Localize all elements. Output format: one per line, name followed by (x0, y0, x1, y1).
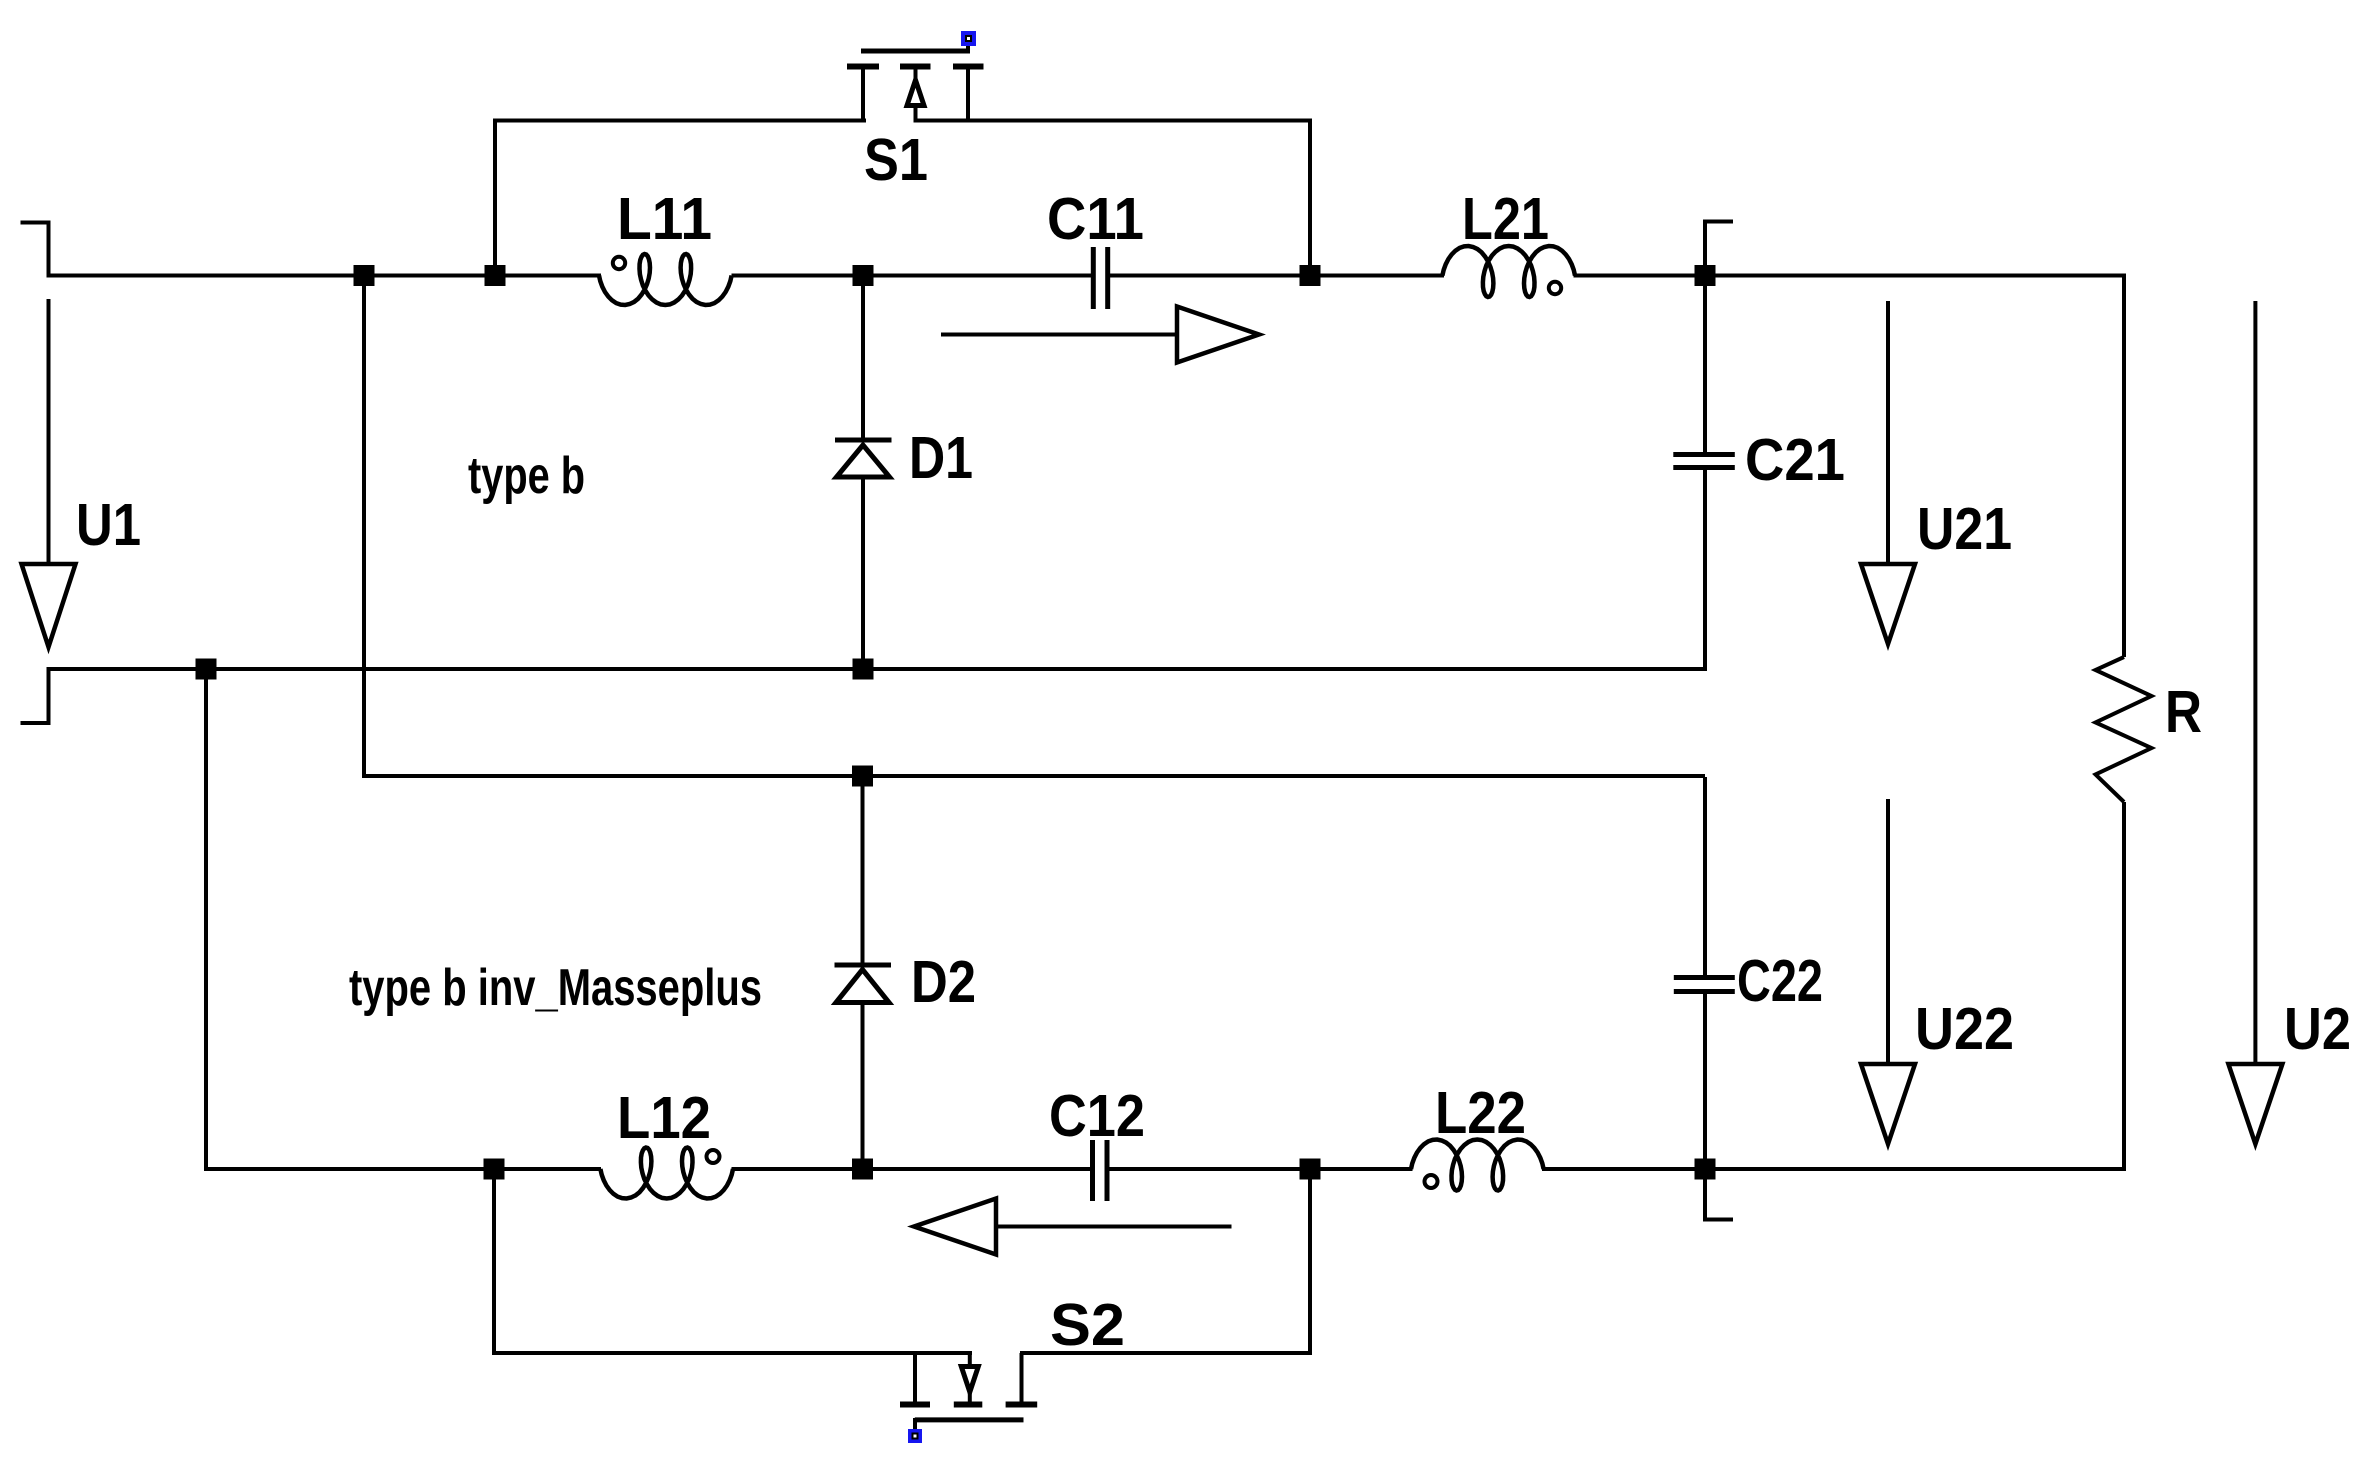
wire: top rail (left of L11) (47, 274, 602, 278)
inductor L12 (600, 1148, 733, 1199)
svg-text:U22: U22 (1915, 996, 2014, 1062)
wire: S1 loop top line right segment (914, 119, 1313, 123)
wire: S2 loop bottom line left segment (492, 1351, 972, 1355)
svg-text:type b inv_Masseplus: type b inv_Masseplus (349, 959, 762, 1017)
node: junction S2 left riser (484, 1159, 505, 1180)
current direction arrow (bottom cell) (914, 1199, 1232, 1255)
wire: bottom rail (L12 to C12) (732, 1167, 1094, 1171)
diode D1 (835, 277, 892, 671)
svg-text:C11: C11 (1047, 186, 1144, 252)
node: junction rail1 tap (196, 659, 217, 680)
transistor S2 (MOSFET) (900, 1353, 1037, 1429)
node: junction S1 left riser (485, 265, 506, 286)
gate handle (blue) of S1 (961, 31, 976, 46)
wire: top rail (C11 to L21) (1108, 274, 1444, 278)
voltage arrow U2 (2228, 301, 2282, 1144)
svg-text:U21: U21 (1917, 496, 2012, 562)
svg-text:C22: C22 (1737, 948, 1823, 1014)
node: junction S2 right riser (1300, 1159, 1321, 1180)
wire: S1 left riser (493, 119, 497, 278)
svg-text:L12: L12 (617, 1085, 711, 1151)
wire: S2 loop bottom line right segment (1020, 1351, 1312, 1355)
wire: vertical feed to lower cell rail (364, 276, 1705, 777)
output port terminal bottom-right (1705, 1169, 1733, 1220)
svg-text:D1: D1 (909, 425, 973, 491)
wire: top rail (L21 to corner) (1574, 274, 2125, 278)
inductor L22 (1411, 1140, 1544, 1191)
node: junction D1 bottom (853, 659, 874, 680)
wire: R bottom to bottom rail (2122, 802, 2126, 1169)
svg-text:S1: S1 (864, 127, 928, 193)
output port terminal top-right (1705, 222, 1733, 275)
node: junction top rail to lower-cell feed (354, 265, 375, 286)
node: junction D2 bottom (852, 1159, 873, 1180)
svg-text:S2: S2 (1050, 1292, 1125, 1358)
capacitor C22 (1674, 777, 1735, 1171)
capacitor C11 (1093, 247, 1107, 309)
svg-text:type b: type b (468, 447, 585, 505)
wire: top rail (L11 to C11) (732, 274, 1094, 278)
wire: bottom rail (corner to L12) (206, 1167, 601, 1169)
wire: top rail corner down to R (2122, 274, 2126, 658)
capacitor C12 (1093, 1140, 1108, 1201)
inductor L21 (1442, 246, 1575, 297)
voltage arrow U1 (22, 299, 76, 647)
node: junction C21 top (1695, 265, 1716, 286)
voltage arrow U21 (1861, 301, 1915, 644)
svg-text:R: R (2165, 679, 2202, 745)
node: junction D1 top (853, 265, 874, 286)
inductor L11 (599, 254, 732, 305)
wire: bottom rail (L22 to R corner) (1542, 1167, 2126, 1171)
wire: S2 left riser (492, 1169, 496, 1353)
wire: S1 right riser (1308, 119, 1312, 278)
svg-text:L21: L21 (1462, 186, 1549, 252)
svg-text:C12: C12 (1049, 1083, 1145, 1149)
svg-text:C21: C21 (1745, 427, 1845, 493)
wire: vertical tap down to bottom rail (204, 669, 208, 1169)
gate handle (blue) of S2 (908, 1429, 922, 1443)
svg-text:U1: U1 (76, 492, 141, 558)
node: junction S1 right riser (1300, 265, 1321, 286)
wire: bottom rail (C12 to L22) (1108, 1167, 1413, 1171)
wire: S1 loop top line left segment (493, 119, 866, 123)
wire: S2 right riser (1308, 1169, 1312, 1353)
capacitor C21 (1673, 277, 1735, 671)
input port terminal bottom-left (21, 667, 49, 723)
diode D2 (835, 777, 892, 1171)
input port terminal top-left (21, 223, 49, 275)
wire: middle rail (return) (47, 667, 1708, 671)
node: junction D2 top on lower-cell rail (852, 766, 873, 787)
svg-text:L22: L22 (1435, 1080, 1526, 1146)
transistor S1 (MOSFET) (847, 42, 984, 122)
node: junction C22 bottom (1695, 1159, 1716, 1180)
svg-text:D2: D2 (911, 949, 976, 1015)
svg-text:L11: L11 (617, 186, 712, 252)
svg-text:U2: U2 (2284, 996, 2351, 1062)
current direction arrow (top cell) (941, 307, 1259, 363)
resistor R (2096, 657, 2152, 802)
voltage arrow U22 (1861, 799, 1915, 1144)
